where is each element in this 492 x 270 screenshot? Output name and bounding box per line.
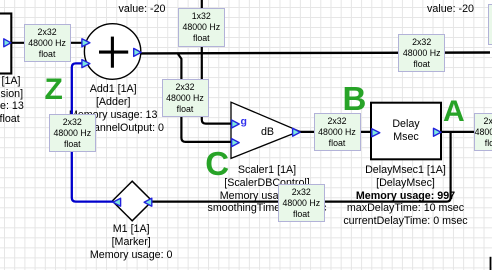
svg-text:g: g [241, 115, 247, 127]
